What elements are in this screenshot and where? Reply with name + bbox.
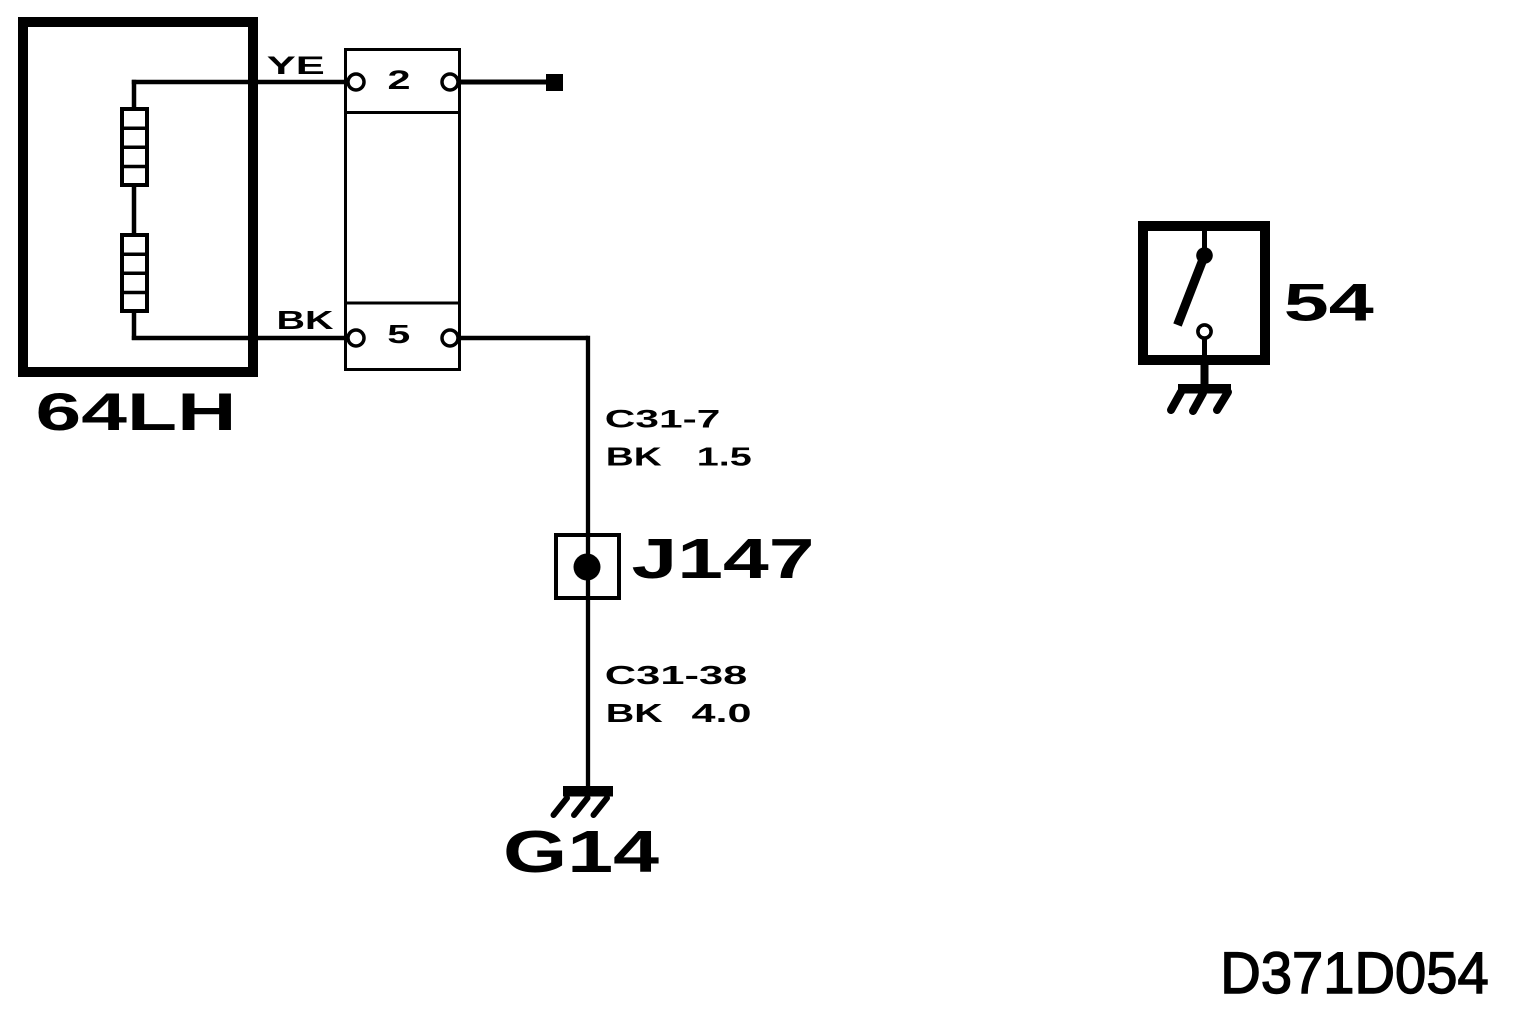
svg-text:C31-7: C31-7 [605, 405, 721, 433]
svg-text:5: 5 [387, 319, 410, 349]
svg-text:J147: J147 [632, 527, 815, 591]
svg-text:D371D054: D371D054 [1220, 941, 1488, 1006]
svg-text:BK: BK [606, 441, 662, 471]
svg-text:2: 2 [388, 65, 411, 95]
svg-text:BK: BK [277, 305, 334, 335]
svg-text:54: 54 [1284, 274, 1375, 333]
svg-text:64LH: 64LH [36, 383, 237, 442]
svg-text:BK: BK [606, 698, 663, 728]
svg-text:C31-38: C31-38 [605, 660, 748, 690]
svg-text:G14: G14 [503, 818, 659, 885]
svg-text:1.5: 1.5 [697, 441, 752, 471]
svg-text:4.0: 4.0 [692, 698, 752, 728]
svg-text:YE: YE [267, 52, 325, 80]
